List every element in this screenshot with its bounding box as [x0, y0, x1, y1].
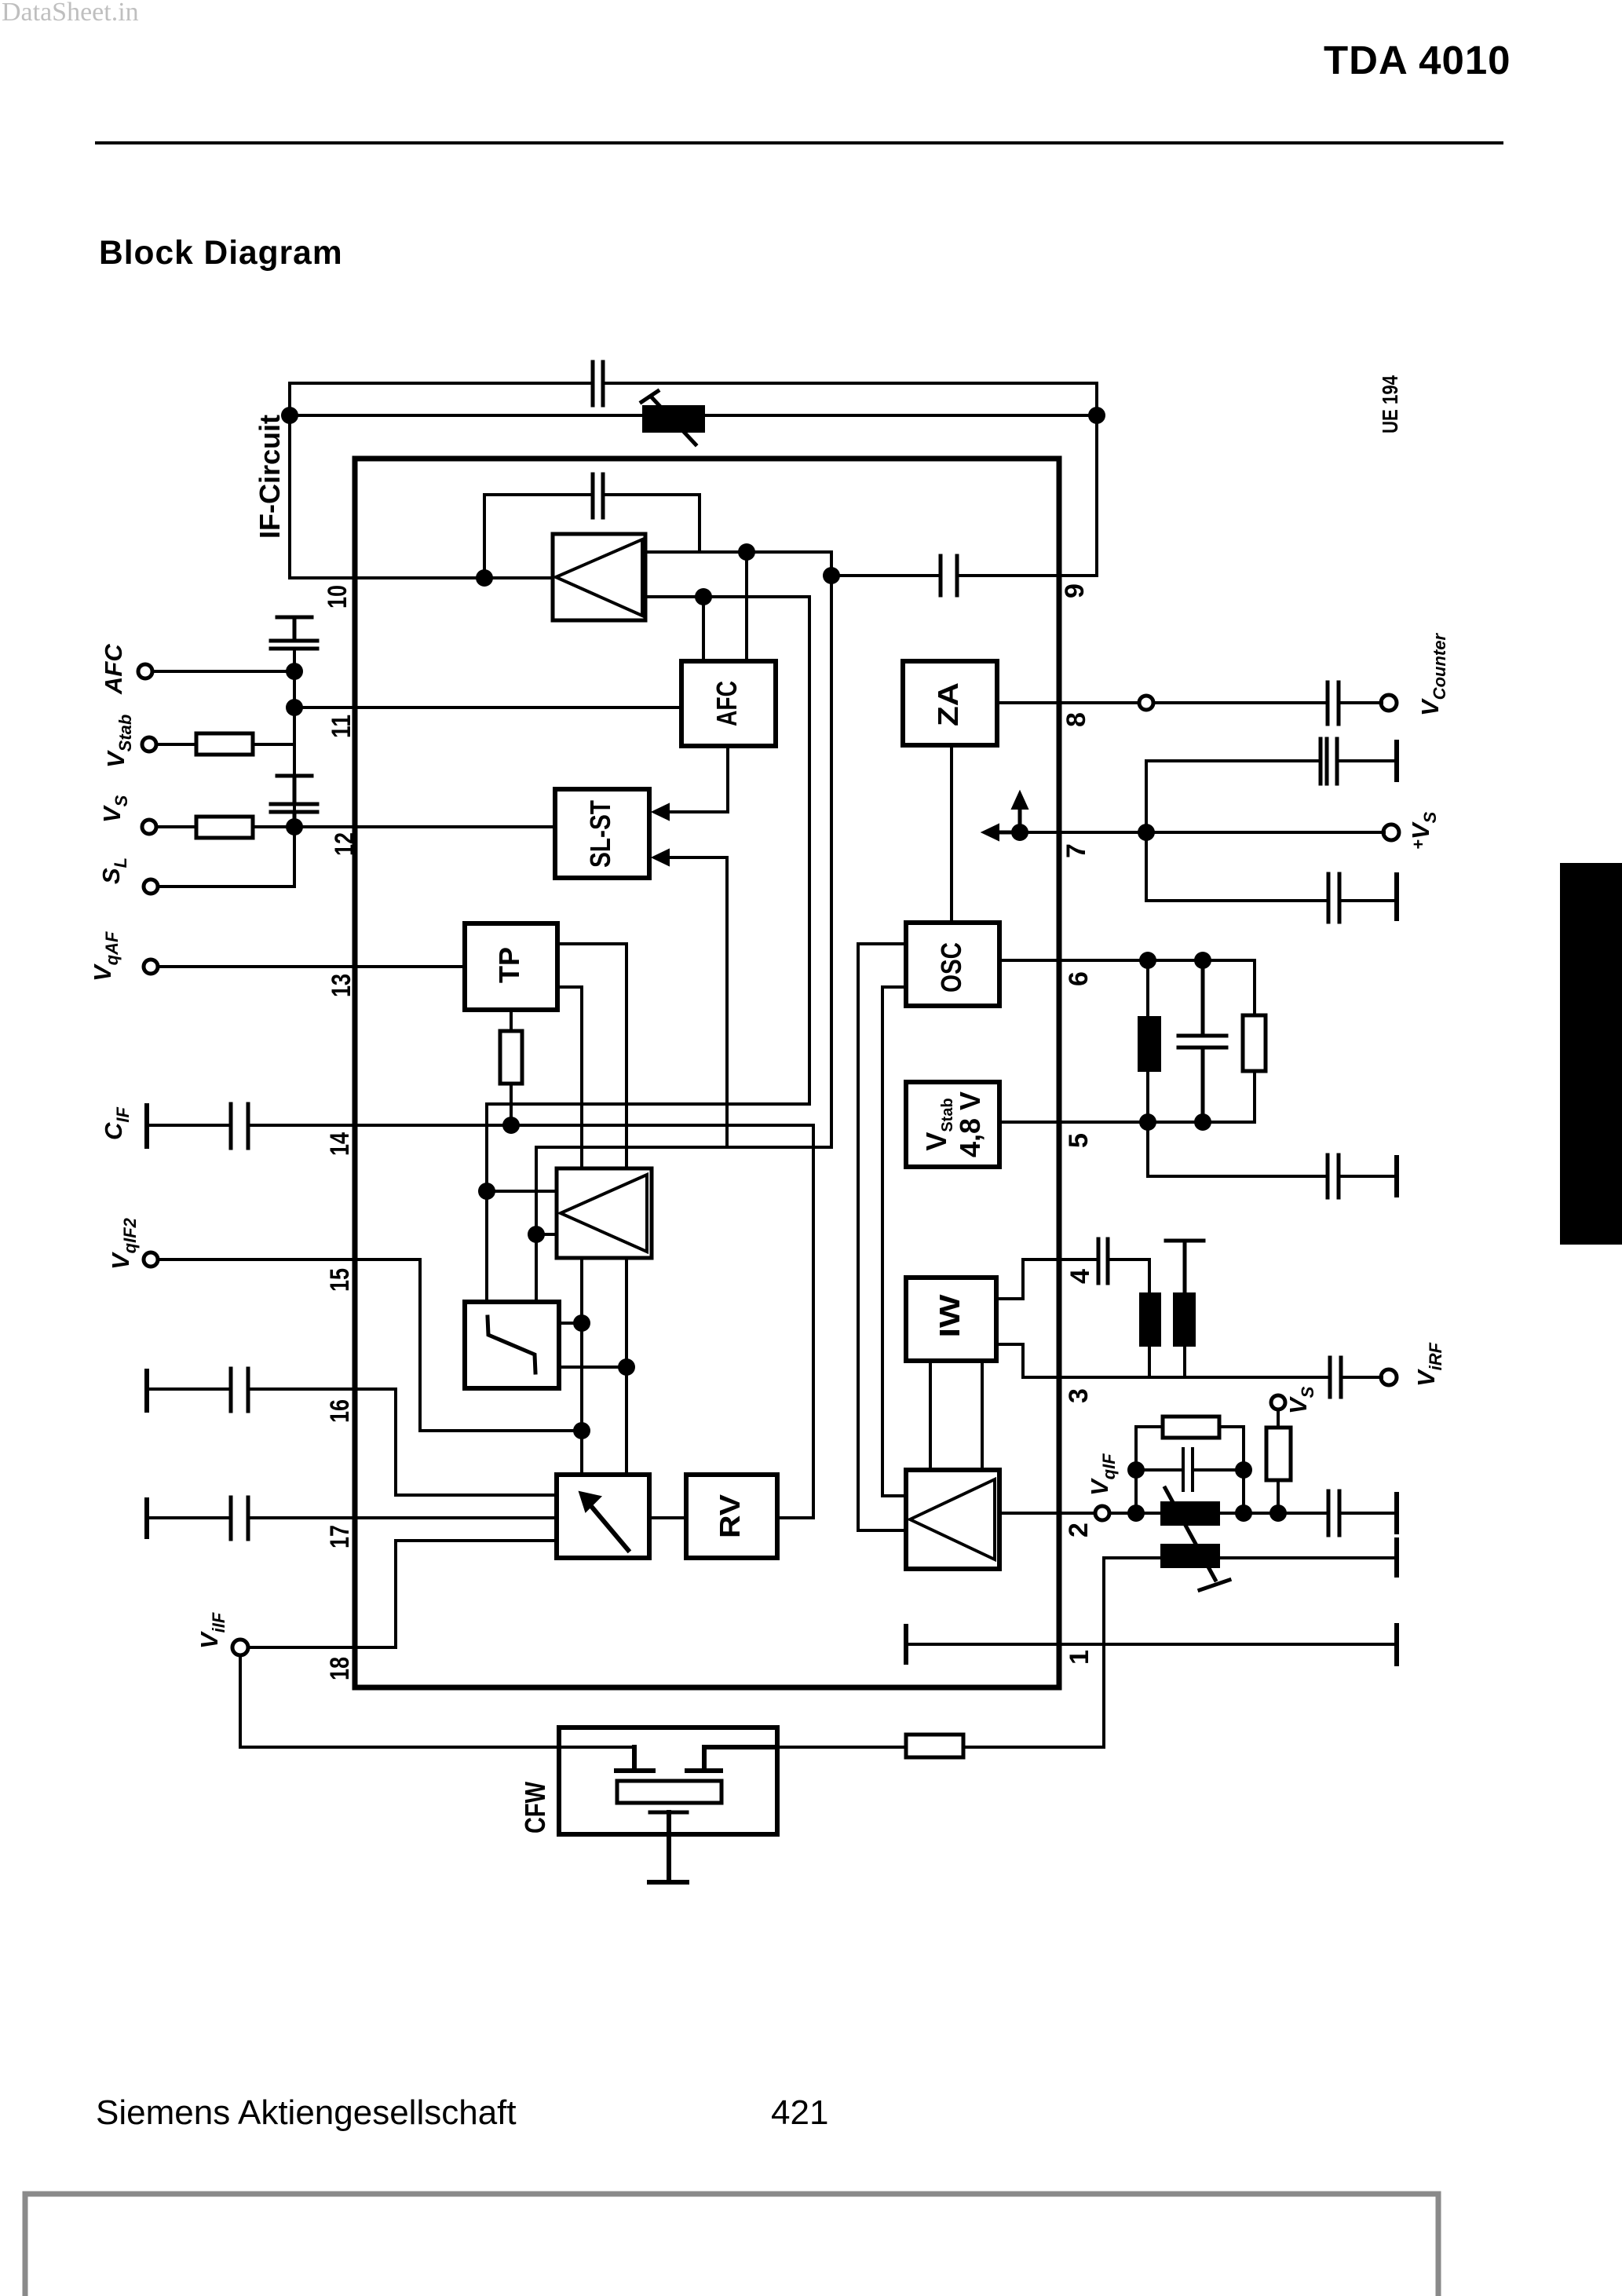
ground bar secondary: [1394, 1540, 1399, 1575]
node dot loop left: [281, 407, 298, 424]
svg-text:IW: IW: [933, 1294, 966, 1337]
terminal VS pin2: [1271, 1395, 1285, 1409]
wire limiter feed left: [485, 1191, 488, 1302]
svg-text:3: 3: [1064, 1388, 1094, 1403]
svg-text:SL-ST: SL-ST: [584, 800, 616, 868]
node dot pin7 arrows: [1011, 824, 1028, 841]
resistor R5 tank: [1253, 960, 1256, 1122]
header rule: [95, 141, 1503, 144]
block OSC box: [906, 923, 999, 1006]
ground pin14: [144, 1106, 149, 1146]
ground above T1: [1166, 1241, 1204, 1292]
node dot mixer2 lower input: [528, 1226, 545, 1243]
wire pin3 line: [996, 1344, 1382, 1377]
resistor R8 CFW: [906, 1735, 963, 1757]
wire SL to pin12 node: [158, 827, 294, 887]
mixer U3 triangle: [910, 1479, 995, 1559]
trimmer R1 body: [644, 407, 703, 431]
supply arrow up: [1018, 806, 1022, 826]
wire pin7 line: [1020, 831, 1384, 834]
wire outer loop top edge (pin10 to pin9): [290, 383, 1097, 578]
svg-text:AFC: AFC: [711, 681, 743, 726]
wire pin7 lower bypass: [1146, 832, 1394, 901]
wire ViIF down to CFW: [240, 1655, 634, 1747]
wire SL-ST lower input: [666, 856, 727, 859]
wire VS terminal: [156, 825, 294, 828]
demodulator arrowhead: [579, 1492, 601, 1512]
node dot RC right: [1235, 1461, 1252, 1479]
node dot pin10 branch: [476, 569, 493, 587]
ground bar pin2: [1394, 1494, 1399, 1532]
capacitor C7 pin16: [231, 1369, 248, 1411]
ground pin16: [144, 1371, 149, 1410]
wire limiter feed right: [535, 1234, 538, 1302]
wire VStab terminal: [156, 743, 294, 746]
transformer T2 primary: [1160, 1501, 1220, 1526]
node dot limiter upper: [573, 1314, 590, 1332]
node dot mixer1 top output: [738, 543, 755, 561]
terminal VS pin12: [142, 820, 156, 834]
wire pin4 line: [996, 1260, 1149, 1299]
terminal AFC: [138, 664, 152, 678]
resistor R7 VS pin2: [1266, 1428, 1291, 1480]
node dot pin7 branch: [1138, 824, 1155, 841]
block limiter box: [465, 1302, 559, 1388]
ground pin17: [144, 1500, 149, 1537]
ground bar upper bypass: [1394, 742, 1399, 780]
resistor R3 VS: [196, 817, 253, 838]
capacitor C15 ViRF: [1330, 1358, 1341, 1397]
CFW lower electrode: [650, 1811, 687, 1815]
svg-text:AFC: AFC: [100, 644, 127, 695]
wire pin1 line: [906, 1643, 1394, 1646]
svg-text:9: 9: [1060, 583, 1090, 598]
wire mixer2 bottom left chain: [580, 1258, 583, 1475]
svg-text:RV: RV: [714, 1494, 746, 1538]
transformer T1 left winding: [1139, 1292, 1161, 1347]
wire pin2 RC loop: [1136, 1427, 1244, 1513]
wire mixer1 feedback loop: [484, 495, 700, 578]
wire pin11 line: [294, 706, 681, 709]
CFW left gate: [616, 1747, 653, 1771]
inductor L1 tank: [1146, 960, 1149, 1122]
bottom frame: [25, 2194, 1438, 2296]
wire pin9 line: [831, 574, 1097, 577]
capacitor C13 pin5: [1328, 1155, 1339, 1197]
node dot limiter lower: [618, 1358, 635, 1376]
wire pin14 left: [147, 1124, 813, 1127]
svg-text:12: 12: [330, 832, 360, 856]
node dot mixer2 upper input: [478, 1183, 495, 1200]
node dot pin5 C: [1194, 1113, 1211, 1131]
svg-text:10: 10: [323, 585, 353, 609]
node dot pin12: [286, 818, 303, 835]
ground above C4: [277, 617, 312, 639]
wire OSC upper left to mixer3: [858, 944, 906, 1530]
node dot loop right: [1088, 407, 1105, 424]
node dot RC left: [1127, 1461, 1145, 1479]
ground bar lower bypass: [1394, 875, 1399, 919]
wire AFC terminal: [152, 670, 294, 673]
wire AFC output down: [666, 746, 728, 812]
capacitor C14 pin4: [1098, 1239, 1108, 1283]
svg-text:8: 8: [1061, 712, 1091, 727]
block mixer U3 box: [906, 1470, 999, 1569]
svg-text:5: 5: [1064, 1133, 1094, 1148]
terminal VStab: [142, 737, 156, 751]
capacitor C1 in loop top edge: [593, 362, 603, 405]
node dot pin2 c: [1269, 1504, 1287, 1522]
wire AFC input left: [702, 597, 705, 661]
block demodulator box: [557, 1475, 649, 1558]
wire second loop line with trimmer: [290, 414, 1097, 417]
wire pin10 line: [290, 576, 553, 579]
wire pin11 vertical: [293, 650, 296, 827]
svg-text:CFW: CFW: [519, 1782, 551, 1834]
terminal VqIF pin2: [1095, 1506, 1109, 1520]
svg-text:18: 18: [325, 1657, 355, 1680]
wire OSC lower left to mixer3: [882, 987, 906, 1496]
demodulator arrow: [590, 1505, 628, 1550]
svg-text:4,8 V: 4,8 V: [954, 1091, 986, 1157]
capacitor C17 pin2 ground: [1328, 1491, 1339, 1535]
svg-text:15: 15: [325, 1268, 355, 1292]
svg-text:16: 16: [325, 1399, 355, 1423]
node dot pin6 L: [1139, 952, 1156, 969]
terminal VCounter: [1381, 695, 1397, 711]
arrowhead into SL-ST lower: [652, 850, 669, 865]
svg-text:Block Diagram: Block Diagram: [99, 235, 343, 272]
wire pin16 line: [147, 1389, 557, 1495]
wire mixer2 lower input stub: [536, 1233, 557, 1236]
block CFW box: [559, 1727, 777, 1834]
transformer T2 secondary: [1160, 1544, 1220, 1568]
terminal ViRF: [1381, 1369, 1397, 1385]
resistor R6 pin2: [1163, 1417, 1219, 1438]
svg-text:UE 194: UE 194: [1378, 375, 1402, 433]
svg-text:7: 7: [1061, 843, 1091, 858]
wire mixer2 bottom right chain: [625, 1258, 628, 1475]
svg-text:11: 11: [327, 715, 356, 738]
node dot pin5 L: [1139, 1113, 1156, 1131]
terminal ViIF pin18: [232, 1640, 248, 1655]
wire bus L3: [536, 1147, 831, 1234]
wire TP upper output: [557, 944, 627, 1168]
svg-text:TDA 4010: TDA 4010: [1324, 38, 1511, 82]
IC package boundary: [355, 459, 1059, 1687]
wire ZA to OSC: [950, 745, 953, 923]
mixer U1 triangle: [556, 539, 642, 616]
transformer T1 right winding: [1173, 1292, 1196, 1347]
capacitor C3 pin9: [941, 556, 957, 595]
wire R7 stubs: [1277, 1410, 1280, 1513]
node dot pin14 resistor: [502, 1117, 520, 1134]
wire limiter lower output: [559, 1366, 627, 1369]
wire IW to mixer3 left vertical: [929, 1361, 932, 1470]
terminal VqIF2 pin15: [144, 1252, 158, 1267]
node dot pin2 b: [1235, 1504, 1252, 1522]
CFW ground: [649, 1812, 687, 1882]
wire bus L1: [487, 1104, 809, 1191]
block TP box: [465, 923, 557, 1010]
svg-text:1: 1: [1065, 1650, 1094, 1665]
wire TP lower output: [557, 987, 582, 1168]
resistor R4 below TP: [500, 1031, 522, 1084]
wire pin8 line: [997, 701, 1382, 704]
svg-text:OSC: OSC: [935, 942, 967, 993]
supply arrowhead left: [982, 824, 999, 840]
wire pin6 line: [999, 959, 1255, 962]
wire bus vertical to L3: [830, 576, 833, 1147]
wire TP bottom to resistor: [510, 1010, 513, 1125]
block IW box: [906, 1278, 996, 1361]
right edge black tab: [1560, 863, 1622, 1245]
svg-text:4: 4: [1065, 1269, 1095, 1284]
terminal +VS: [1383, 824, 1399, 840]
wire pin7 upper bypass: [1146, 761, 1394, 832]
svg-text:TP: TP: [493, 947, 525, 983]
transformer T2 adjust arrow: [1165, 1488, 1229, 1590]
svg-text:2: 2: [1064, 1523, 1094, 1537]
wire IW to mixer3 right vertical: [981, 1361, 984, 1470]
wire mixer1 bottom output: [645, 597, 809, 1104]
block ZA box: [903, 661, 997, 745]
wire pin2 line: [999, 1512, 1394, 1515]
capacitor C8 pin17: [231, 1497, 248, 1539]
block SL-ST box: [555, 789, 649, 878]
block AFC box: [681, 661, 776, 746]
wire demod to RV: [649, 1516, 686, 1519]
wire pin15 line: [158, 1260, 582, 1431]
trimmer R1 adjust arrow: [641, 391, 696, 444]
svg-text:14: 14: [325, 1132, 355, 1156]
capacitor C5 VS to ground: [271, 776, 317, 825]
wire pin5 line: [999, 1121, 1255, 1124]
wire CFW output to T2: [777, 1558, 1104, 1747]
capacitor C4 AFC to ground: [271, 641, 317, 649]
svg-text:ZA: ZA: [932, 682, 964, 726]
wire T1 right leg bottom: [1183, 1347, 1186, 1377]
ground bar pin5: [1394, 1157, 1399, 1195]
node dot mixer1 bottom output: [695, 588, 712, 605]
wire mixer1 top output: [645, 552, 831, 576]
svg-text:DataSheet.in: DataSheet.in: [2, 0, 139, 27]
wire limiter upper output: [559, 1322, 582, 1325]
svg-text:17: 17: [325, 1525, 355, 1548]
ground bar pin1 left: [904, 1626, 908, 1662]
svg-text:Siemens Aktiengesellschaft: Siemens Aktiengesellschaft: [96, 2093, 517, 2132]
svg-text:421: 421: [771, 2093, 828, 2132]
block mixer U2 box: [557, 1168, 652, 1258]
wire pin17 line: [147, 1516, 557, 1519]
capacitor C16 pin2: [1136, 1449, 1244, 1490]
wire pin12 line: [294, 825, 555, 828]
block VStab box: [906, 1082, 999, 1167]
arrowhead into SL-ST upper: [652, 804, 669, 820]
svg-text:6: 6: [1064, 971, 1094, 986]
capacitor C10 double bypass: [1321, 739, 1337, 784]
CFW crystal plate: [617, 1781, 721, 1803]
node dot AFC junction: [286, 663, 303, 680]
wire L2 down to RV output: [777, 1125, 813, 1518]
ground bar pin1 right: [1394, 1625, 1399, 1664]
terminal SL: [144, 879, 158, 894]
resistor R2 VStab: [196, 733, 253, 755]
block RV box: [686, 1475, 777, 1558]
capacitor C2 mixer1 loop: [593, 474, 603, 517]
node dot pin15 to demod chain: [573, 1422, 590, 1439]
capacitor C11 lower bypass: [1328, 874, 1339, 922]
capacitor C12 tank: [1178, 960, 1226, 1122]
node dot pin2 a: [1127, 1504, 1145, 1522]
svg-text:IF-Circuit: IF-Circuit: [254, 415, 286, 539]
capacitor C6 pin14: [231, 1104, 248, 1148]
wire pin5 ground branch: [1148, 1122, 1394, 1176]
terminal VqAF pin13: [144, 960, 158, 974]
mixer U1 box: [553, 534, 645, 620]
node dot pin6 C: [1194, 952, 1211, 969]
node dot pin11: [286, 699, 303, 716]
wire pin18 line: [248, 1541, 557, 1647]
wire pin13 line: [158, 965, 465, 968]
mixer U2 triangle: [561, 1175, 647, 1252]
wire AFC input right: [745, 552, 748, 661]
limiter S-curve: [488, 1317, 535, 1373]
node dot pin9 junction: [823, 567, 840, 584]
CFW right gate: [687, 1747, 777, 1771]
test point pin8: [1139, 696, 1153, 710]
wire mixer2 upper input stub: [487, 1190, 557, 1193]
capacitor C9 pin8: [1328, 682, 1339, 724]
svg-text:13: 13: [327, 974, 356, 997]
supply arrowhead up: [1012, 792, 1028, 809]
supply arrow left: [995, 831, 1014, 835]
wire SL-ST lower to bus L3: [725, 857, 729, 1147]
wire secondary line: [1104, 1556, 1394, 1559]
wire T1 left leg bottom: [1148, 1347, 1151, 1377]
